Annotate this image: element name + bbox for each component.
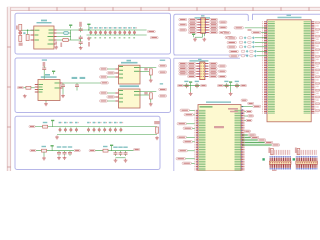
power flag xyxy=(110,145,113,149)
net port row2A xyxy=(30,149,36,151)
capacitor C46 xyxy=(98,122,102,132)
connector CN2 resistor xyxy=(295,148,300,155)
power flag xyxy=(52,71,55,75)
net label SPI1 xyxy=(227,41,267,44)
ic U6 designator xyxy=(121,60,138,64)
connector J1 designator xyxy=(195,15,211,18)
connector CN2 body xyxy=(296,161,318,164)
wire xyxy=(223,85,240,87)
blue pin specks xyxy=(242,106,243,114)
net ports U7 xyxy=(159,88,167,90)
ground xyxy=(193,38,197,42)
wire stubs xyxy=(108,93,116,101)
capacitor C40 xyxy=(59,122,63,132)
ic U1 left pin rows xyxy=(262,21,277,114)
red text inside U3 top-right xyxy=(228,108,238,110)
capacitor C63 xyxy=(113,147,117,157)
capacitor C29 xyxy=(133,27,137,38)
resistor R1 xyxy=(19,24,22,30)
wire to top-right xyxy=(241,106,253,108)
wire link xyxy=(116,157,126,159)
capacitor C62 xyxy=(68,146,72,155)
net label U3 R1 xyxy=(244,115,254,117)
ground xyxy=(202,38,206,42)
net port CRa xyxy=(217,84,223,86)
net flag small xyxy=(248,29,252,31)
ic U3 body xyxy=(198,105,241,171)
net label J1 R6 xyxy=(210,31,218,33)
wire node xyxy=(22,30,34,34)
wire xyxy=(150,99,152,102)
wire xyxy=(45,101,47,103)
ground xyxy=(63,156,67,160)
net port row2A right xyxy=(74,149,80,151)
resistor R13 xyxy=(103,149,108,152)
net label U3 L3 xyxy=(183,127,195,129)
block sheet-3 outline xyxy=(15,116,160,169)
ic U5 left pins xyxy=(35,85,38,93)
net label J2 LL4 xyxy=(179,70,187,72)
capacitor C27 xyxy=(123,27,127,38)
wire xyxy=(183,85,200,87)
capacitor C7 xyxy=(79,40,83,45)
net port row2B xyxy=(89,149,95,151)
net label J1 L4 xyxy=(189,26,197,28)
net port J1 aux2 xyxy=(225,36,233,38)
teal marker xyxy=(23,32,25,34)
net label U3 top-right xyxy=(253,105,261,107)
ic U5 right pins xyxy=(60,83,63,88)
net ports U6 xyxy=(159,65,167,67)
net port VDD row1 xyxy=(29,125,35,127)
J2 pin numbers xyxy=(201,63,204,77)
net label J2 LL2 xyxy=(179,65,187,67)
net label J1 L2 xyxy=(189,21,197,23)
ic U2 right pins xyxy=(54,30,57,44)
connector J2 pins xyxy=(196,64,208,77)
C8 value xyxy=(43,62,46,67)
R10 label xyxy=(43,122,48,123)
net label bundle1 xyxy=(258,139,266,141)
wire CS xyxy=(245,27,267,29)
capacitor C8 label xyxy=(42,59,47,60)
resistor R6 xyxy=(149,69,152,75)
label below CN1 xyxy=(272,170,277,171)
ground xyxy=(149,102,153,106)
connector J2 designator xyxy=(189,59,208,62)
net label J1 RR6 xyxy=(219,31,227,33)
wire xyxy=(43,71,45,79)
wire xyxy=(52,123,54,126)
net label flash bl1 xyxy=(241,99,247,101)
net label J2 R5 xyxy=(209,73,217,75)
capacitor C43 xyxy=(75,122,79,132)
net label J2 L6 xyxy=(188,75,196,77)
capacitor C6 xyxy=(79,35,83,40)
net label J2 L4 xyxy=(188,70,196,72)
ic U3 designator xyxy=(206,101,231,103)
power flag xyxy=(192,34,195,38)
ic U5 body xyxy=(38,80,60,101)
connector J1 pins xyxy=(197,20,209,33)
wire xyxy=(24,87,35,89)
wire xyxy=(150,75,152,79)
capacitor C9 xyxy=(61,83,65,88)
net label J2 RR2 xyxy=(218,65,226,67)
net label SPI0 xyxy=(227,36,267,39)
J2 pin blue dots xyxy=(199,63,206,77)
net label J2 RR4 xyxy=(218,70,226,72)
wire U2 out1 xyxy=(57,29,147,31)
net label SPI4 xyxy=(229,54,267,57)
J1 pin numbers xyxy=(202,19,205,33)
ground xyxy=(42,152,46,160)
block sheet-1 outline xyxy=(15,13,171,54)
block sheet-2 outline xyxy=(15,58,171,113)
capacitor C24 xyxy=(109,27,113,38)
net label bundle row0 xyxy=(248,134,256,136)
capacitor C22 xyxy=(99,27,103,38)
capacitor C42 xyxy=(70,122,74,132)
U6 left pins xyxy=(115,69,118,77)
U7 right pin names xyxy=(119,90,140,102)
net label CS xyxy=(234,27,244,29)
wire U5 out xyxy=(63,82,101,84)
net label J2 R6 xyxy=(209,75,217,77)
connector J2 body xyxy=(200,62,205,80)
wire bundle MCU-to-flash xyxy=(242,138,272,146)
connector CN2 top comb xyxy=(296,156,318,161)
net label J1 R4 xyxy=(210,26,218,28)
resistor R10 xyxy=(43,125,48,128)
R7 label xyxy=(144,92,147,95)
net label bundle2 xyxy=(265,141,273,143)
wire U2 out2 xyxy=(57,30,81,40)
connector CN1 pin numbers xyxy=(270,162,291,163)
red text inside U3 center xyxy=(214,126,224,128)
capacitor C11 xyxy=(75,83,79,88)
frame tick marks top xyxy=(29,7,309,11)
resistor R11 xyxy=(156,127,159,133)
R13 label xyxy=(103,146,108,147)
net label J1 L6 xyxy=(189,31,197,33)
net label U3 L5 xyxy=(183,141,195,143)
ground xyxy=(79,46,83,50)
capacitor C64 xyxy=(118,147,122,157)
page background xyxy=(0,0,320,171)
net port VBUS xyxy=(147,30,155,32)
label xyxy=(88,42,90,47)
block sheet-4 outline xyxy=(174,14,249,55)
green top name xyxy=(200,106,213,107)
power flag CN2 xyxy=(293,158,295,160)
sheet frame top band xyxy=(7,7,320,11)
wire xyxy=(36,150,74,152)
capacitor C5 xyxy=(79,27,83,32)
frame tick marks left xyxy=(7,47,11,167)
power flag xyxy=(87,24,90,28)
capacitor C28 xyxy=(128,27,132,38)
net label J2 L5 xyxy=(188,73,196,75)
crystal Y1 xyxy=(64,32,68,35)
ground xyxy=(57,156,61,160)
ground xyxy=(155,136,159,140)
capacitor C45 xyxy=(93,122,97,132)
resistor R3 xyxy=(26,34,29,40)
ic U5 designator xyxy=(41,74,57,78)
net label U3 R0 xyxy=(244,110,252,112)
flash right cut-off labels xyxy=(315,21,320,113)
teal flag xyxy=(160,83,163,84)
net label U3 L7 xyxy=(176,158,195,160)
wire gnd rail xyxy=(87,34,147,36)
R1 value label xyxy=(16,26,18,30)
net label J1 LL5 xyxy=(179,29,187,31)
power flag CN1 xyxy=(262,158,264,160)
connector CN1 pin labels above xyxy=(270,150,291,155)
ground xyxy=(149,79,153,83)
block sheet-6 outline (right flash block, cropped) xyxy=(253,14,320,20)
resistor R12 xyxy=(42,149,47,152)
capacitor C25 xyxy=(114,27,118,38)
wire gnd rail xyxy=(57,134,157,136)
ic U2 left pins xyxy=(31,30,34,40)
net label U3 L0 xyxy=(180,109,195,111)
wire bundle row0 xyxy=(242,134,248,136)
net label J2 RR6 xyxy=(218,75,226,77)
R12 label xyxy=(42,146,47,147)
net label J2 LL1 xyxy=(179,62,187,64)
teal label xyxy=(160,60,166,61)
connector CN1 body xyxy=(269,161,291,164)
net label SPI3 xyxy=(229,50,267,53)
net label J2 R4 xyxy=(209,70,217,72)
ground under U5 xyxy=(44,102,48,106)
wire DO xyxy=(261,31,267,33)
capacitor CR2 xyxy=(235,81,239,89)
ic U3 left pin rows xyxy=(194,110,209,171)
net label J1 R3 xyxy=(210,24,218,26)
net label J1 LL1 xyxy=(179,18,187,20)
net port row2B right xyxy=(134,148,140,150)
net label below U1 xyxy=(244,130,250,132)
capacitor CL1 xyxy=(184,81,188,89)
capacitor C65 xyxy=(123,147,127,157)
R6 label xyxy=(144,68,147,71)
ic U7 designator xyxy=(120,85,140,87)
power flag xyxy=(229,81,232,85)
net label J2 R1 xyxy=(209,62,217,64)
net label J1 RR2 xyxy=(219,21,227,23)
capacitor C60 xyxy=(57,146,61,155)
resistor R2 xyxy=(19,35,22,41)
capacitor CL2 xyxy=(195,81,199,89)
net port IN xyxy=(17,86,23,88)
capacitor C48 xyxy=(109,122,113,132)
net label U3 R2 xyxy=(244,119,252,121)
net label U3 L4 xyxy=(177,136,195,138)
ic U1 right pin rows xyxy=(302,21,317,114)
capacitor labels C9 C11 xyxy=(72,77,86,79)
connector CN2 bottom comb xyxy=(296,164,318,170)
connector J1 body xyxy=(201,18,206,33)
ground IC1 right xyxy=(54,46,58,50)
capacitor C61 xyxy=(62,146,66,155)
net label J1 L5 xyxy=(189,29,197,31)
connector CN1 top comb xyxy=(269,156,291,161)
power flag xyxy=(189,81,192,85)
connector CN2 pin labels above xyxy=(297,150,318,155)
ground xyxy=(23,94,27,98)
ground xyxy=(229,85,233,95)
J1 pin blue dots xyxy=(200,19,207,33)
net label U3 L1 xyxy=(184,114,195,116)
wire xyxy=(95,150,133,152)
net label bundle0 xyxy=(251,136,259,138)
U6 right pin names xyxy=(119,66,140,78)
capacitor C8 xyxy=(42,66,46,71)
resistor R4 xyxy=(26,86,31,89)
connector CN1 resistor xyxy=(268,148,273,155)
net port CLa xyxy=(177,84,183,86)
net port GND xyxy=(150,36,158,38)
capacitor C23 xyxy=(104,27,108,38)
net label J1 R5 xyxy=(210,29,218,31)
power flag xyxy=(51,120,54,124)
wire xyxy=(195,33,204,37)
net label J2 LL5 xyxy=(179,73,187,75)
led D1 xyxy=(19,31,22,34)
wire stub xyxy=(63,88,77,94)
net label J2 L1 xyxy=(188,62,196,64)
wire U7 out xyxy=(140,92,156,96)
net label J1 RR4 xyxy=(219,26,227,28)
net label J1 R1 xyxy=(210,18,218,20)
wire top rail xyxy=(35,126,157,128)
ic U1 body xyxy=(267,20,311,122)
net label J2 L3 xyxy=(188,67,196,69)
capacitor C47 xyxy=(103,122,107,132)
ground xyxy=(189,85,193,95)
net port OUT xyxy=(101,82,109,84)
ground xyxy=(124,159,128,163)
junction xyxy=(27,30,28,31)
net label U3 L8 xyxy=(182,162,195,164)
net port CLb xyxy=(200,84,206,86)
capacitor C41 xyxy=(64,122,68,132)
net label bundle3 xyxy=(272,144,280,146)
net label J2 R2 xyxy=(209,65,217,67)
ic U6 body xyxy=(119,65,141,84)
sheet frame left band xyxy=(7,7,11,171)
power flag xyxy=(51,145,54,149)
net label U3 L6 xyxy=(178,150,195,152)
ic U7 body xyxy=(119,89,141,108)
ic U1 designator xyxy=(278,15,302,19)
ground xyxy=(87,37,91,41)
net port J1 aux xyxy=(223,32,231,34)
ground xyxy=(114,159,118,163)
resistor R7 xyxy=(149,93,152,99)
capacitor C21 xyxy=(94,27,98,38)
U7 left pins xyxy=(115,93,118,101)
ic U3 right pin rows xyxy=(231,110,246,171)
block sheet-5 outline (right/bottom cropped) xyxy=(174,55,240,171)
U7 left net labels xyxy=(100,92,108,94)
R2 label xyxy=(19,43,23,46)
connector CN1 bottom comb xyxy=(269,164,291,170)
ground xyxy=(55,136,59,140)
capacitor C44 xyxy=(87,122,91,132)
net label SPI2 xyxy=(227,45,267,48)
capacitor C50 xyxy=(120,122,124,132)
ferrite bead FB1 xyxy=(63,38,69,41)
junction xyxy=(88,29,89,30)
capacitor C26 xyxy=(119,27,123,38)
op-amp U2 designator label xyxy=(37,20,52,24)
capacitor C20 xyxy=(89,27,93,38)
label xyxy=(60,43,62,48)
capacitor C49 xyxy=(114,122,118,132)
net port CRb xyxy=(240,84,246,86)
power flag VCC xyxy=(69,25,72,29)
R11 label xyxy=(154,121,160,124)
net label flash bl2 xyxy=(248,102,254,104)
net label J1 R2 xyxy=(210,21,218,23)
net label J2 R3 xyxy=(209,67,217,69)
connector CN2 pin numbers xyxy=(297,162,318,163)
net label J2 LL3 xyxy=(179,67,187,69)
net label DO xyxy=(252,31,262,33)
ic U2 body xyxy=(34,26,54,49)
net label J1 LL3 xyxy=(179,24,187,26)
net label J1 L1 xyxy=(189,18,197,20)
label xyxy=(55,42,57,45)
capacitor CR1 xyxy=(224,81,228,89)
wire drop xyxy=(88,27,90,30)
wire U6 out xyxy=(140,68,156,72)
net label J2 L2 xyxy=(188,65,196,67)
capacitor C5 label xyxy=(79,22,82,27)
net label U3 L2 xyxy=(177,123,195,125)
U6 left net labels xyxy=(100,68,108,70)
net label J1 L3 xyxy=(189,24,197,26)
ground xyxy=(61,94,65,98)
wire stubs xyxy=(108,69,116,77)
